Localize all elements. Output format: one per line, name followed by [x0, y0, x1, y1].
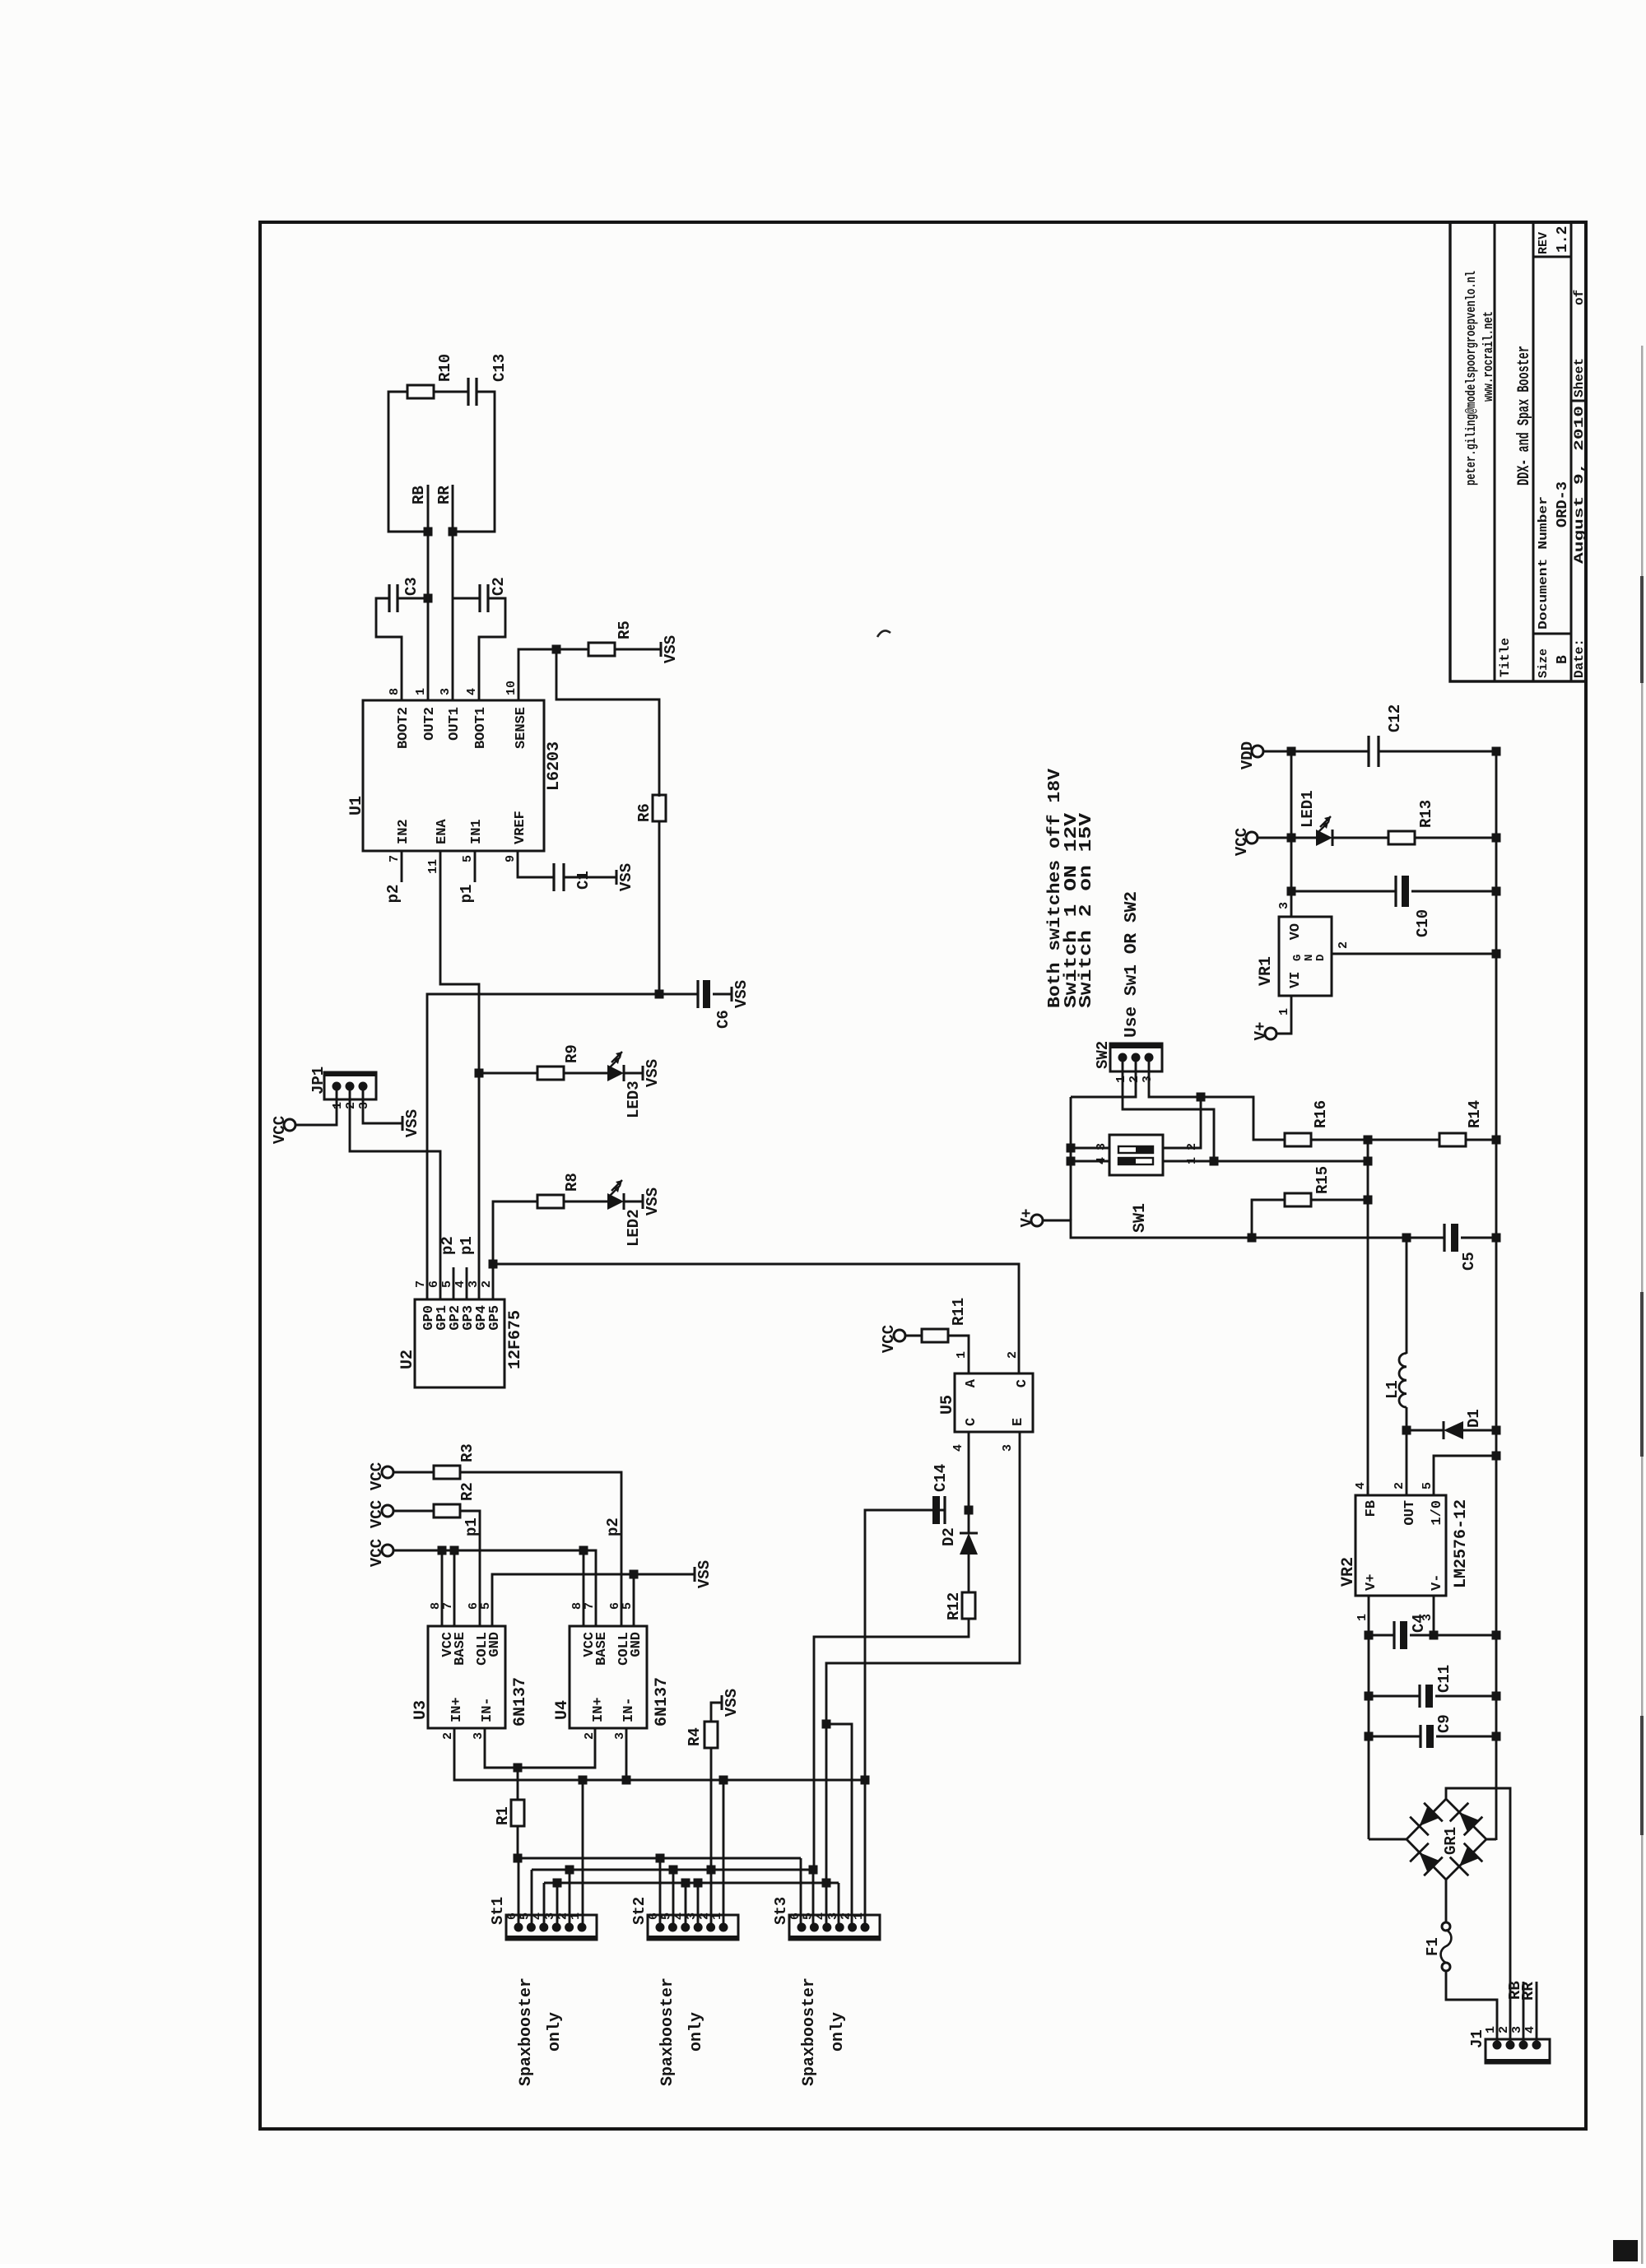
svg-text:BOOT2: BOOT2 [396, 707, 411, 749]
junction St1 pin3 on bus [553, 1879, 562, 1888]
svg-text:VCC: VCC [1233, 828, 1251, 856]
svg-text:VDD: VDD [1239, 741, 1257, 769]
wire C4 top [1369, 1634, 1394, 1637]
wire VR1 GND pin2 to ground rail [1332, 953, 1496, 955]
svg-text:7: 7 [441, 1602, 455, 1610]
wire GR1 AC right vertex to J1 pin2 [1446, 1788, 1510, 2045]
wire U1 OUT1 net RR [452, 485, 454, 700]
wire SW2 pin3 to R16 [1149, 1057, 1285, 1140]
junction R6/C6/GP0 node [655, 990, 664, 999]
wire DCC input row junction St1 pin1 [579, 1776, 588, 1785]
resistor R15 [1285, 1193, 1311, 1206]
wire U1 IN2 stub to net p2 [401, 851, 403, 882]
St3 pin dots [797, 1923, 807, 1932]
capacitor C10 polarized [1394, 876, 1397, 907]
wire U5 pin4 to C14/D2 node [968, 1432, 970, 1510]
wire SW1 pin3 to V+ rail [1071, 1147, 1109, 1150]
wire R1 bottom lead [517, 1826, 519, 1858]
junction V+ rail R15 tap [1248, 1234, 1257, 1243]
junction ground rail C11 [1492, 1692, 1501, 1701]
wire C5 to ground rail [1461, 1237, 1496, 1239]
svg-text:C: C [1015, 1379, 1030, 1387]
wire GR1 plus vertex to V+ feed [1369, 1838, 1407, 1841]
wire R3 to U4 COLL net p2 [460, 1472, 621, 1626]
svg-text:C4: C4 [1410, 1614, 1428, 1633]
capacitor C4 polarized [1393, 1621, 1395, 1649]
junction R15 on FB row [1364, 1196, 1373, 1205]
wire C1 to VSS [564, 876, 616, 879]
svg-text:R11: R11 [950, 1298, 968, 1326]
wire U2 GP1 to JP1 pin2 [350, 1086, 440, 1299]
svg-text:VCC: VCC [880, 1325, 898, 1353]
wire C12 to ground rail [1379, 751, 1496, 753]
svg-text:GND: GND [629, 1632, 644, 1657]
svg-text:R1: R1 [494, 1806, 512, 1825]
resistor R9 [537, 1067, 564, 1080]
svg-text:3: 3 [1277, 902, 1291, 909]
wire F1 to J1 pin1 [1446, 1971, 1497, 2045]
capacitor C11 polarized [1418, 1685, 1420, 1708]
svg-text:1: 1 [1114, 1076, 1128, 1083]
wire R14 to FB row [1368, 1139, 1439, 1141]
svg-text:9: 9 [504, 855, 518, 862]
svg-text:R3: R3 [458, 1443, 477, 1462]
svg-text:LED2: LED2 [625, 1209, 643, 1247]
scan scribble artifact [877, 630, 890, 637]
wire R12 to St pin5/2 bus [814, 1619, 969, 1870]
wire VR2 FB pin4 to feedback row [1367, 1486, 1369, 1495]
svg-text:OUT1: OUT1 [447, 707, 463, 741]
svg-text:V+: V+ [1364, 1574, 1379, 1591]
SW2 pin dots [1118, 1053, 1128, 1062]
wire VCC to R2 [393, 1510, 434, 1513]
connector SW2 body [1110, 1043, 1162, 1071]
wire St1 pin5 to bus [531, 1870, 533, 1927]
junction R16/R14 on FB row [1364, 1136, 1373, 1145]
junction St3 pin4 / U5 emitter row [822, 1879, 831, 1888]
svg-text:LED1: LED1 [1299, 790, 1317, 828]
resistor R11 [922, 1329, 948, 1342]
svg-text:ENA: ENA [435, 819, 450, 844]
svg-text:B: B [1555, 655, 1571, 664]
wire C14 to DCC row [928, 1509, 945, 1512]
svg-text:p1: p1 [463, 1517, 481, 1536]
wire LED1 to R13 [1332, 837, 1388, 839]
svg-text:C2: C2 [490, 577, 508, 596]
wire U4 GND pin5 [633, 1574, 635, 1626]
svg-text:VR2: VR2 [1339, 1557, 1358, 1587]
resistor R5 [588, 643, 615, 656]
power symbol VSS at opto GND rail [694, 1567, 696, 1582]
svg-text:5: 5 [440, 1280, 454, 1288]
svg-text:12F675: 12F675 [506, 1310, 525, 1369]
wire GP5 node to U5 cathode pin2 [493, 1264, 1019, 1373]
svg-text:R16: R16 [1312, 1100, 1330, 1128]
wire LED2 to VSS [624, 1201, 643, 1203]
svg-text:C12: C12 [1386, 704, 1404, 732]
svg-text:U2: U2 [398, 1350, 417, 1369]
svg-text:4: 4 [951, 1444, 965, 1452]
junction R1 / St pin6 row [514, 1854, 523, 1863]
junction ground rail R14 [1492, 1136, 1501, 1145]
svg-text:IN+: IN+ [449, 1697, 465, 1722]
junction ENA/R9 node [475, 1069, 484, 1078]
svg-text:V+: V+ [1252, 1022, 1270, 1041]
junction GND rail U4 pin5 [630, 1570, 639, 1579]
connector J1 body [1486, 2039, 1550, 2063]
wire D2 to R12 [968, 1555, 970, 1592]
IC VR2 LM2576-12 body [1355, 1495, 1446, 1596]
power symbol VCC output [1246, 832, 1258, 844]
svg-text:3: 3 [1095, 1143, 1109, 1150]
SW1 slide element a [1118, 1158, 1153, 1164]
title block column divider lines [1533, 633, 1571, 635]
junction ground rail R13 [1492, 834, 1501, 843]
svg-text:3: 3 [467, 1280, 481, 1288]
JP1 pin dots [332, 1082, 342, 1091]
svg-text:GR1: GR1 [1442, 1827, 1460, 1855]
svg-text:1.2: 1.2 [1555, 226, 1571, 253]
junction C11 on V+ feed [1365, 1692, 1374, 1701]
wire VR2 V+ pin1 to input node [1368, 1596, 1370, 1635]
svg-text:R8: R8 [563, 1173, 581, 1192]
svg-text:2: 2 [1497, 2026, 1511, 2033]
LED LED2 [607, 1193, 624, 1210]
svg-text:D: D [1314, 955, 1327, 961]
svg-text:p1: p1 [458, 1236, 476, 1255]
power symbol VSS at C1 [616, 870, 618, 885]
svg-text:SW1: SW1 [1131, 1203, 1150, 1233]
svg-text:C6: C6 [714, 1010, 732, 1029]
wire U1 VREF to C1 [518, 851, 554, 877]
svg-text:D1: D1 [1465, 1409, 1483, 1428]
St2 pin dots [656, 1923, 665, 1932]
power symbol VDD [1252, 746, 1263, 757]
wire feedback row to VR2 FB [1367, 1140, 1369, 1495]
junction St2 pin4 on bus [681, 1879, 690, 1888]
junction DCC row U4 pin3 [622, 1776, 631, 1785]
switch SW1 body [1109, 1135, 1163, 1175]
svg-text:Date:: Date: [1572, 639, 1587, 678]
wire St1 pin2 to bus [569, 1870, 571, 1927]
svg-text:6N137: 6N137 [653, 1677, 672, 1727]
svg-text:3: 3 [1141, 1076, 1155, 1083]
junction VO/VDD [1287, 747, 1296, 756]
svg-text:JP1: JP1 [309, 1067, 328, 1094]
svg-text:1: 1 [955, 1351, 969, 1359]
junction ground rail C4 [1492, 1631, 1501, 1640]
wire U1 BOOT1 to C2 [479, 598, 505, 700]
diode D2 [968, 1510, 970, 1532]
wire U4 IN- pin3 to DCC row [625, 1728, 628, 1780]
svg-text:LED3: LED3 [625, 1081, 643, 1118]
svg-text:2: 2 [1185, 1143, 1199, 1150]
capacitor C3 [388, 584, 390, 612]
wire snubber loop upper [388, 392, 428, 532]
svg-text:R15: R15 [1314, 1166, 1332, 1194]
resistor R6 [653, 795, 666, 821]
wire U3 VCC pin8 [441, 1550, 444, 1626]
wire St2 pin4 to bus [685, 1883, 687, 1927]
svg-text:Spaxbooster: Spaxbooster [517, 1978, 536, 2086]
power symbol VSS at LED3 [642, 1066, 644, 1081]
wire St2 pin6 to bus [659, 1858, 662, 1927]
junction St2 pin3 on bus [694, 1879, 703, 1888]
svg-text:U3: U3 [411, 1700, 430, 1720]
wire U3 IN+ pin2 to DCC row [454, 1728, 865, 1780]
svg-text:Document Number: Document Number [1537, 496, 1551, 630]
wire R15 top from V+ rail [1252, 1200, 1285, 1238]
svg-text:4: 4 [465, 688, 479, 695]
wire U2 GP5 to U5 and R8 [493, 1201, 537, 1299]
wire V+ rail to SW2 pin2 [1070, 1097, 1072, 1220]
svg-text:2: 2 [1006, 1351, 1020, 1359]
J1 polarity bar [1486, 2059, 1550, 2063]
resistor R8 [537, 1195, 564, 1208]
wire R8 to LED2 [564, 1201, 607, 1203]
svg-text:VR1: VR1 [1257, 956, 1276, 986]
junction VR1 GND on rail [1492, 950, 1501, 959]
power symbol VCC at R2 [382, 1505, 393, 1517]
wire R14 to ground rail [1466, 1139, 1496, 1141]
svg-text:only: only [546, 2012, 565, 2052]
svg-text:1: 1 [331, 1102, 345, 1109]
wire VR2 I/O pin5 to ground [1434, 1456, 1496, 1495]
diode D1 catch [1407, 1429, 1444, 1432]
svg-text:1: 1 [710, 1912, 724, 1920]
svg-text:R14: R14 [1466, 1100, 1484, 1128]
svg-text:VCC: VCC [271, 1116, 289, 1144]
resistor R10 [407, 385, 434, 398]
svg-text:VREF: VREF [513, 811, 528, 844]
svg-text:2: 2 [1337, 941, 1351, 949]
power symbol VCC at JP1 [284, 1119, 295, 1131]
junction VO/VCC [1287, 834, 1296, 843]
wire main ground rail [1495, 751, 1498, 1840]
wire U4 VCC pin8 [583, 1550, 585, 1626]
SW1 slide element b [1118, 1146, 1153, 1153]
wire R13 to ground rail [1415, 837, 1496, 839]
title block row divider lines [1494, 222, 1496, 681]
svg-text:3: 3 [1510, 2026, 1524, 2033]
svg-text:only: only [829, 2012, 848, 2052]
svg-text:2: 2 [1393, 1482, 1407, 1490]
wire VR2 OUT pin2 to L1/D1 node [1406, 1430, 1408, 1495]
junction SW1 pin1 / SW2 pin1 [1210, 1157, 1219, 1166]
svg-text:11: 11 [426, 859, 440, 874]
resistor R12 [962, 1592, 975, 1619]
wire St3 pin4 to bus [825, 1883, 828, 1927]
svg-text:V-: V- [1430, 1574, 1445, 1591]
wire U3 BASE pin7 [453, 1550, 456, 1626]
wire R16 to FB row [1311, 1139, 1368, 1141]
svg-text:R10: R10 [436, 354, 454, 382]
svg-text:BOOT1: BOOT1 [473, 707, 489, 749]
power symbol V+ at VR1 input [1265, 1028, 1276, 1039]
wire C6 to VSS [713, 993, 732, 996]
wire VR2 V- pin3 to C4/ground [1433, 1596, 1435, 1635]
junction L1 to V+ column [1402, 1234, 1411, 1243]
wire St2 pin2 to R4 [710, 1748, 713, 1927]
svg-text:L6203: L6203 [545, 741, 564, 791]
svg-text:ORD-3: ORD-3 [1555, 481, 1571, 527]
wire St pin6 bus row [518, 1857, 801, 1860]
svg-text:only: only [687, 2012, 706, 2052]
St1 pin dots [514, 1923, 523, 1932]
svg-text:St1: St1 [489, 1897, 507, 1925]
IC U3 6N137 body [428, 1626, 505, 1728]
wire VCC rail to U3/U4 pins 8 and 7 [393, 1550, 596, 1626]
wire R11 to U5 anode pin1 [948, 1336, 969, 1373]
wire V+ to supply rail [1043, 1220, 1444, 1238]
resistor R1 [511, 1800, 524, 1826]
wire U2 GP2 stub net p2 [453, 1267, 455, 1299]
svg-text:C: C [964, 1418, 979, 1426]
svg-text:IN1: IN1 [469, 819, 485, 844]
junction St1 pin2 on bus [565, 1866, 574, 1875]
junction C3/OUT2 [424, 594, 433, 603]
resistor R2 [434, 1504, 460, 1517]
junction GP5 node [489, 1260, 498, 1269]
svg-text:Sheet: Sheet [1572, 358, 1587, 397]
wire St1 pin4 to bus [543, 1883, 546, 1927]
capacitor C12 [1367, 736, 1369, 767]
svg-text:VI: VI [1288, 972, 1304, 988]
junction St2 pin6 on bus [656, 1854, 665, 1863]
SW2 polarity bar [1110, 1043, 1162, 1048]
wire J1 pin3 net RB [1523, 1982, 1525, 2045]
wire R2 to U3 COLL net p1 [460, 1511, 480, 1626]
wire L1 leads [1406, 1407, 1408, 1430]
svg-text:5: 5 [621, 1602, 635, 1610]
wire V+ to VR1 VI [1276, 996, 1291, 1034]
junction SW1 pin1 on FB row [1364, 1157, 1373, 1166]
svg-text:C9: C9 [1435, 1714, 1453, 1733]
svg-text:7: 7 [414, 1280, 428, 1288]
svg-text:C13: C13 [491, 354, 509, 382]
svg-text:7: 7 [388, 855, 402, 862]
wire U3 IN- pin3 to U4 IN+ pin2 [485, 1728, 595, 1768]
svg-text:2: 2 [480, 1280, 494, 1288]
svg-text:VSS: VSS [732, 980, 751, 1008]
svg-text:1: 1 [1484, 2026, 1498, 2033]
JP1 polarity bar [324, 1072, 376, 1076]
junction St3 pin5 / R12 node [809, 1866, 818, 1875]
svg-text:VCC: VCC [368, 1462, 386, 1490]
wire C4 bottom to ground rail [1410, 1634, 1496, 1637]
wire St3 pin1 to DCC row [864, 1780, 867, 1927]
svg-text:VCC: VCC [368, 1500, 386, 1528]
svg-text:1: 1 [414, 688, 428, 695]
wire St2 pin5 to bus [672, 1870, 675, 1927]
svg-text:REV: REV [1537, 232, 1551, 254]
junction St2 pin2 / R4 on bus [707, 1866, 716, 1875]
wire C14 top to DCC row [865, 1510, 928, 1780]
svg-text:VSS: VSS [723, 1689, 741, 1717]
svg-text:7: 7 [583, 1602, 597, 1610]
wire snubber loop lower [453, 392, 495, 532]
svg-text:SENSE: SENSE [514, 707, 529, 749]
power symbol VSS at R5 [660, 642, 663, 657]
svg-text:R4: R4 [686, 1727, 704, 1746]
wire R10 to C13 [434, 391, 468, 393]
wire SW1 pin4 to V+ rail [1071, 1160, 1109, 1163]
svg-text:Use Sw1 OR SW2: Use Sw1 OR SW2 [1123, 891, 1142, 1038]
svg-text:VCC: VCC [368, 1539, 386, 1567]
wire R4 to VSS [711, 1703, 722, 1722]
svg-text:C3: C3 [402, 577, 421, 596]
connector JP1 body [324, 1072, 376, 1099]
wire St1 pin1 to DCC row [582, 1780, 584, 1927]
svg-text:www.rocrail.net: www.rocrail.net [1481, 311, 1497, 402]
junction St2 pin5 on bus [669, 1866, 678, 1875]
svg-text:R9: R9 [563, 1044, 581, 1063]
wire VCC to LED1 [1258, 837, 1316, 839]
svg-text:Title: Title [1498, 638, 1513, 677]
wire St3 pin6 to bus end [800, 1858, 802, 1927]
svg-text:VSS: VSS [662, 635, 680, 663]
fuse F1 [1442, 1922, 1450, 1931]
wire JP1 pin3 to VSS [363, 1086, 402, 1123]
capacitor C1 [552, 863, 555, 891]
wire GR1 minus vertex to ground rail [1486, 1839, 1496, 1840]
wire R15 to FB row [1311, 1199, 1368, 1201]
svg-text:p1: p1 [458, 885, 476, 904]
svg-text:3: 3 [439, 688, 453, 695]
capacitor C14 polarized [943, 1496, 946, 1524]
wire U3 GND pin5 to VSS rail [492, 1574, 695, 1626]
svg-text:5: 5 [1420, 1482, 1434, 1490]
resistor R4 [704, 1722, 718, 1748]
svg-text:C5: C5 [1460, 1252, 1478, 1271]
junction SENSE node [552, 645, 561, 654]
svg-text:R12: R12 [945, 1592, 963, 1620]
svg-text:DDX- and Spax Booster: DDX- and Spax Booster [1515, 346, 1534, 486]
GR1 diode bottom-left [1459, 1847, 1479, 1866]
svg-text:5: 5 [479, 1602, 493, 1610]
connector St2 body [648, 1915, 738, 1940]
power symbol VCC at R3 [382, 1466, 393, 1478]
svg-text:IN+: IN+ [591, 1697, 607, 1722]
svg-text:1/0: 1/0 [1430, 1500, 1445, 1526]
junction OUT1/snubber [449, 527, 458, 537]
GR1 diode top-right [1420, 1806, 1439, 1826]
IC U1 L6203 body [363, 700, 544, 851]
LED LED3 [607, 1065, 624, 1081]
bridge rectifier GR1 outline [1407, 1799, 1486, 1880]
svg-text:2: 2 [344, 1102, 358, 1109]
power symbol VCC at R11 [894, 1330, 905, 1341]
wire SW1 pin1 to feedback row [1163, 1160, 1368, 1163]
resistor R3 [434, 1466, 460, 1479]
connector St3 body [789, 1915, 880, 1940]
wire VCC to R11 [905, 1335, 922, 1337]
svg-text:RR: RR [435, 486, 453, 504]
wire C2 to OUT1 net [453, 597, 480, 600]
svg-text:E: E [1011, 1418, 1026, 1426]
power symbol VSS at JP1 [402, 1116, 404, 1131]
svg-text:6N137: 6N137 [511, 1677, 530, 1727]
svg-text:BASE: BASE [453, 1632, 468, 1666]
resistor R13 [1388, 831, 1415, 844]
St2 polarity bar [648, 1936, 738, 1940]
power symbol V+ input [1031, 1215, 1043, 1226]
wire St pin4/3 bus row [544, 1882, 839, 1885]
junction ground rail C5 [1492, 1234, 1501, 1243]
svg-text:4: 4 [1523, 2026, 1537, 2033]
wire St1 pin6 to R1 row [518, 1858, 520, 1927]
svg-text:U1: U1 [347, 796, 366, 816]
